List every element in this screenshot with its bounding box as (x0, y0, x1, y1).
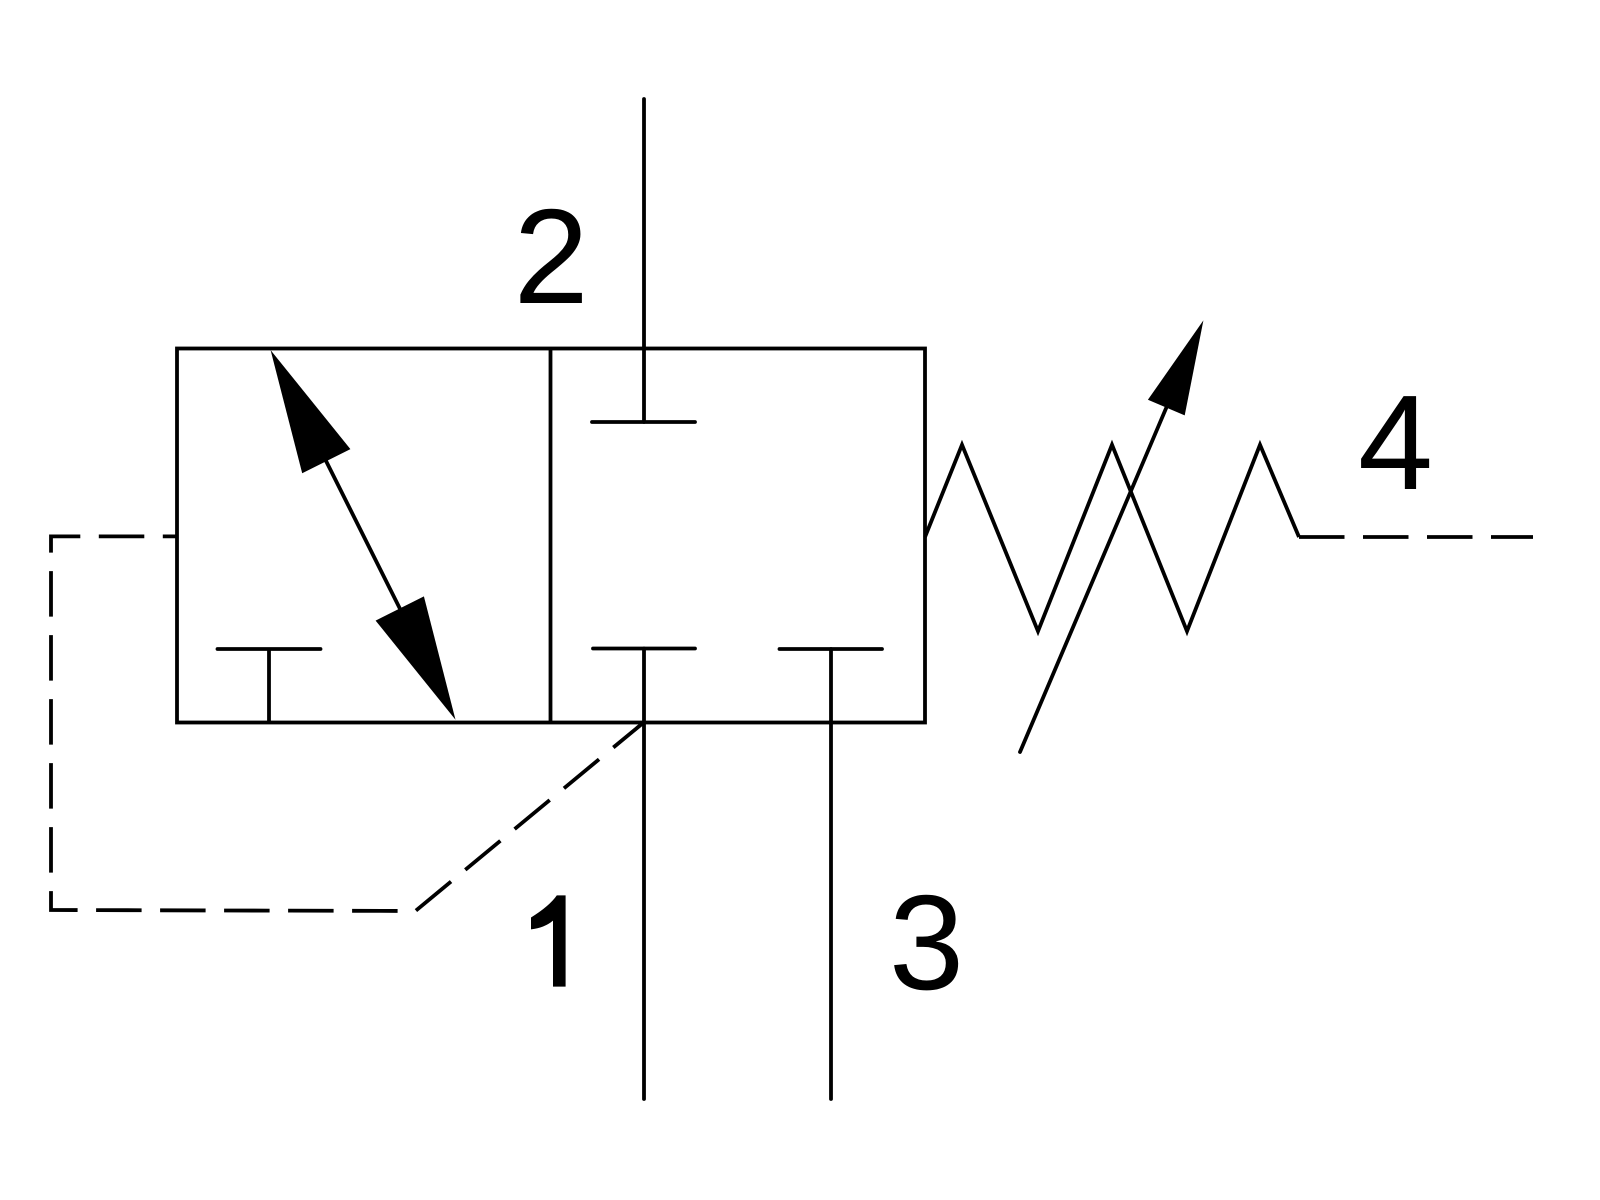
valve body box (177, 349, 925, 723)
flow arrowhead lower (376, 596, 456, 719)
svg-text:4: 4 (1358, 367, 1433, 518)
flow arrow shaft (320, 449, 406, 621)
port 1 line (642, 649, 646, 1100)
svg-text:2: 2 (514, 181, 589, 332)
left position seat stem (267, 649, 271, 723)
svg-text:3: 3 (889, 867, 964, 1018)
port 4 dashed line (1299, 535, 1533, 539)
label 1 (531, 895, 566, 986)
port 1 seat bar (593, 647, 695, 651)
spring (925, 445, 1299, 631)
port 3 line (829, 649, 833, 1099)
left position seat bar (218, 647, 321, 651)
port 3 seat bar (780, 647, 883, 651)
port 2 seat bar (592, 420, 695, 424)
pilot line dashed (51, 536, 643, 911)
port 2 line (642, 99, 646, 422)
adjustment arrow shaft (1020, 385, 1176, 752)
valve section divider (549, 349, 553, 723)
flow arrowhead upper (271, 350, 351, 473)
adjustment arrowhead (1148, 320, 1204, 415)
